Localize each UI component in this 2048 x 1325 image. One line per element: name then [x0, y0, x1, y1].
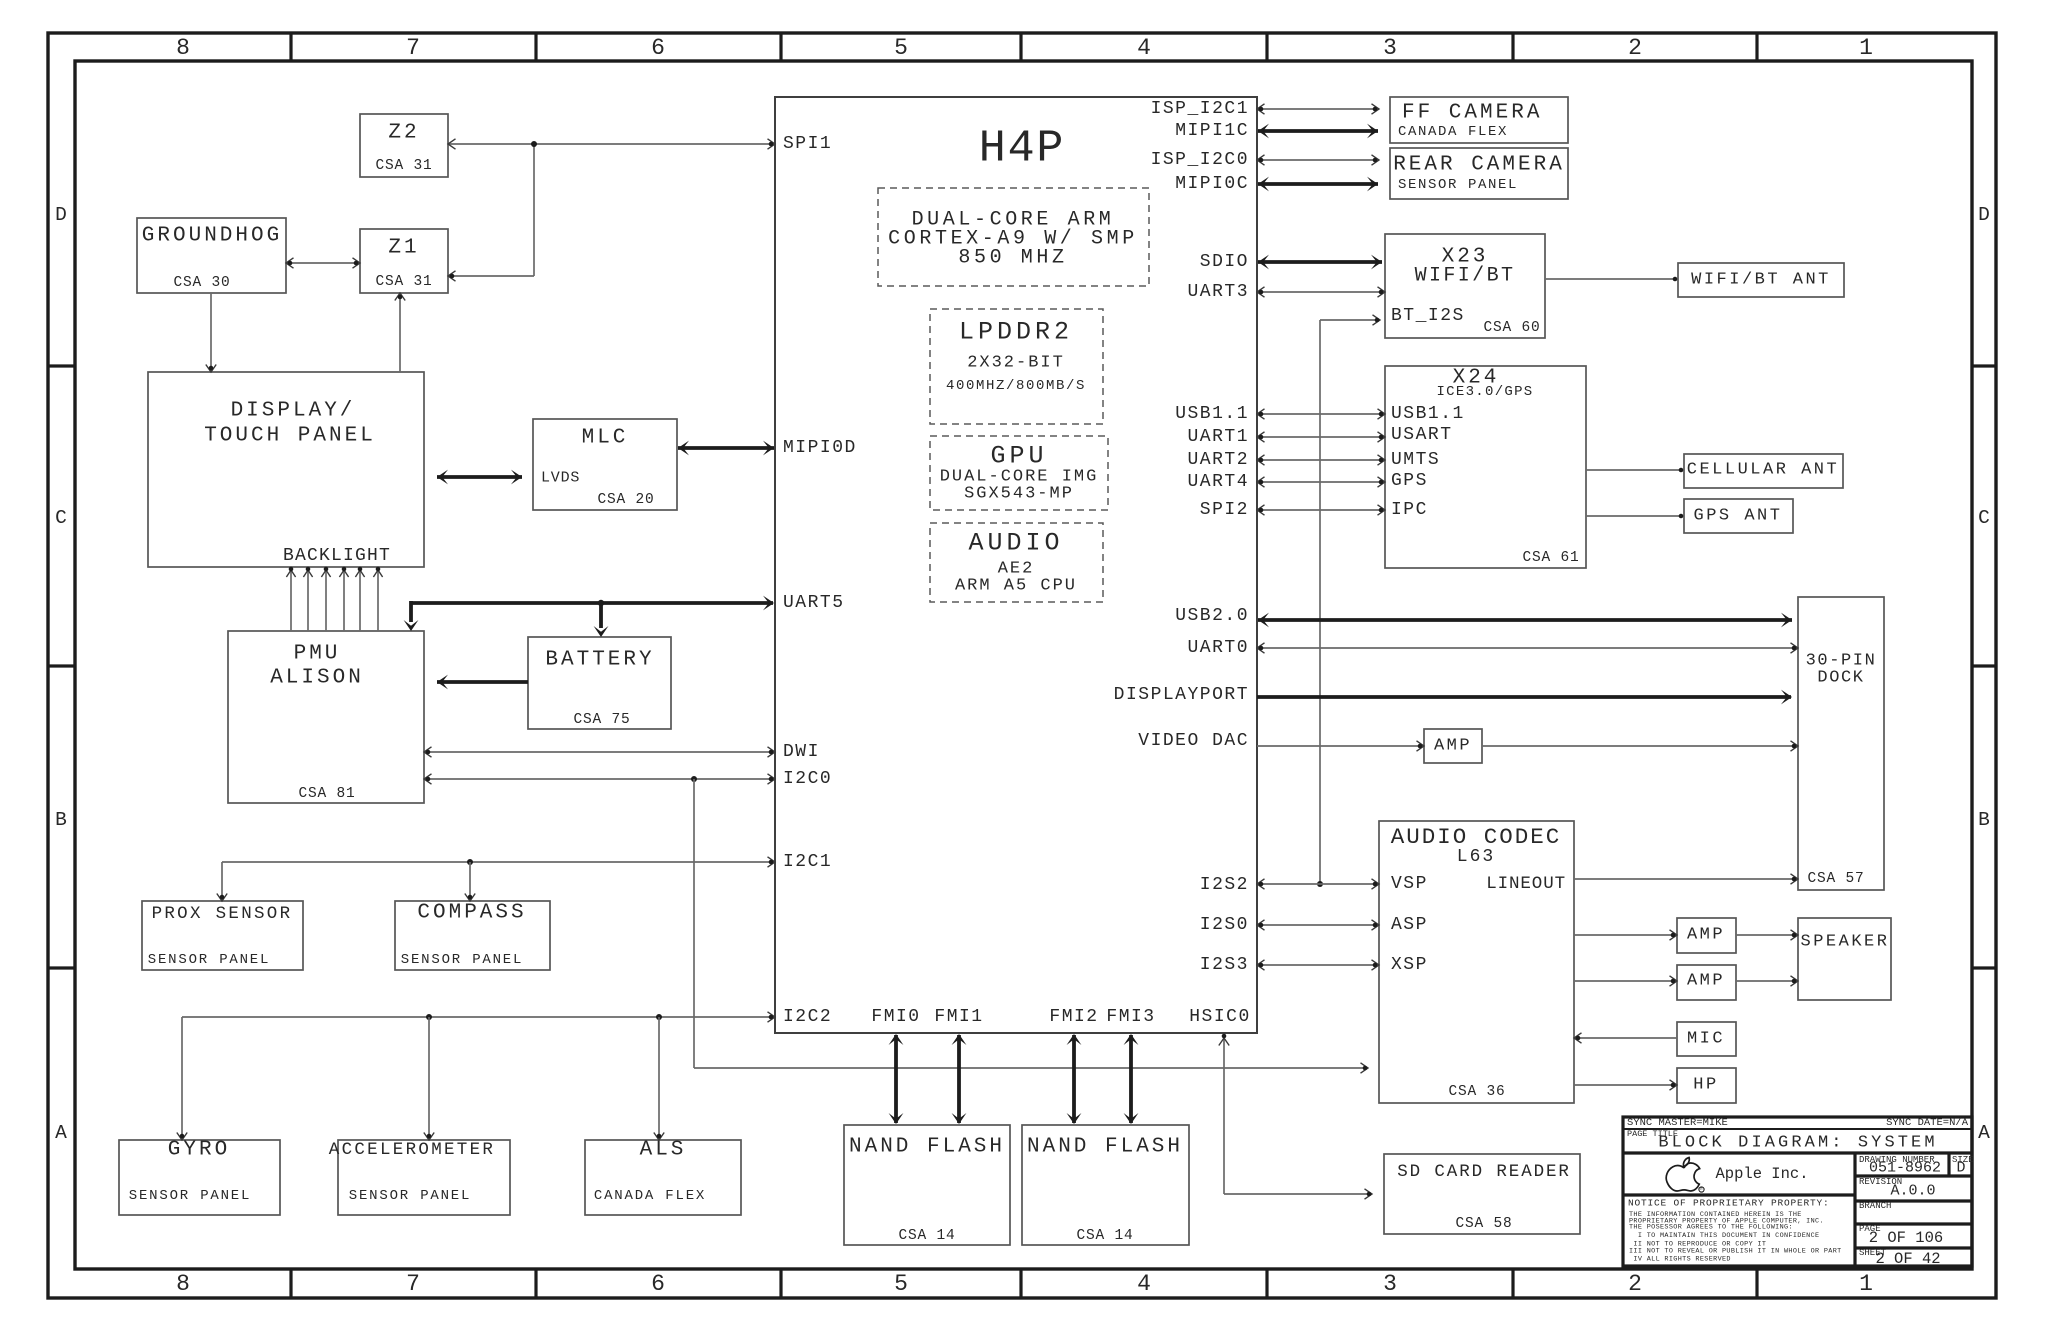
- svg-text:BACKLIGHT: BACKLIGHT: [283, 546, 391, 566]
- block X24 ICE3.0/GPS (CSA 61): [1385, 366, 1586, 568]
- title block proprietary notice: [1628, 1198, 1830, 1209]
- svg-text:Z1: Z1: [388, 237, 419, 260]
- H4P inner dashed block: GPU: [930, 436, 1108, 510]
- svg-text:GPS: GPS: [1391, 471, 1428, 491]
- block SPEAKER: [1798, 918, 1891, 1000]
- block ALS (CANADA FLEX): [585, 1139, 741, 1216]
- svg-text:CSA 36: CSA 36: [1448, 1084, 1505, 1100]
- title block frame: [1623, 1117, 1972, 1266]
- svg-text:UART0: UART0: [1187, 638, 1249, 658]
- svg-text:FMI1: FMI1: [934, 1007, 983, 1027]
- svg-text:PMU: PMU: [294, 643, 341, 666]
- svg-text:AMP: AMP: [1434, 737, 1472, 756]
- wire UART1 H4P to X24 USART: [1257, 432, 1385, 442]
- title block page title: [1627, 1129, 1938, 1153]
- svg-text:I2S0: I2S0: [1200, 915, 1249, 935]
- svg-text:8: 8: [176, 35, 190, 61]
- svg-text:ASP: ASP: [1391, 915, 1428, 935]
- svg-text:SENSOR PANEL: SENSOR PANEL: [1398, 177, 1518, 193]
- block MLC (LVDS, CSA 20): [533, 419, 677, 510]
- svg-text:CSA 20: CSA 20: [597, 492, 654, 508]
- title block sheet number: [1859, 1248, 1941, 1268]
- svg-text:LINEOUT: LINEOUT: [1486, 874, 1566, 894]
- svg-text:BATTERY: BATTERY: [545, 649, 654, 672]
- block Z1 (CSA 31): [360, 229, 448, 293]
- svg-text:SENSOR PANEL: SENSOR PANEL: [401, 952, 523, 968]
- column tick marks top/bottom: [291, 33, 1757, 1298]
- block GROUNDHOG (CSA 30): [137, 218, 286, 293]
- svg-text:GPU: GPU: [990, 442, 1047, 471]
- block AMP 1 (speaker amp): [1677, 918, 1736, 953]
- svg-text:ICE3.0/GPS: ICE3.0/GPS: [1436, 384, 1533, 400]
- wire codec to AMP 2: [1574, 976, 1677, 986]
- wire MLC to H4P MIPI0D (thick): [678, 441, 774, 456]
- svg-text:BT_I2S: BT_I2S: [1391, 306, 1465, 326]
- wire ISP_I2C0 H4P to REAR CAMERA: [1257, 155, 1379, 165]
- wire I2S2 H4P to codec VSP: [1257, 879, 1379, 889]
- svg-text:LPDDR2: LPDDR2: [959, 318, 1073, 347]
- wire BT_I2S net X23 to VSP line: [1317, 315, 1380, 887]
- block AMP 2 (speaker amp): [1677, 965, 1736, 1000]
- wire FMI0 H4P to NAND FLASH 1 (thick): [889, 1034, 904, 1124]
- svg-text:7: 7: [406, 1271, 420, 1297]
- block 30-PIN DOCK (CSA 57): [1798, 597, 1884, 890]
- wire USB2.0 H4P to 30-PIN DOCK (thick): [1258, 613, 1792, 628]
- svg-text:2X32-BIT: 2X32-BIT: [967, 354, 1065, 373]
- svg-text:CSA 30: CSA 30: [173, 275, 230, 291]
- svg-text:CANADA FLEX: CANADA FLEX: [1398, 124, 1508, 140]
- svg-text:BLOCK DIAGRAM: SYSTEM: BLOCK DIAGRAM: SYSTEM: [1658, 1134, 1937, 1153]
- block WIFI/BT ANT: [1678, 263, 1844, 297]
- svg-text:GPS ANT: GPS ANT: [1694, 507, 1783, 526]
- row tick marks left/right: [48, 366, 1996, 968]
- wire DWI PMU to H4P: [424, 747, 775, 757]
- svg-text:IV ALL RIGHTS RESERVED: IV ALL RIGHTS RESERVED: [1629, 1256, 1731, 1264]
- svg-text:CSA 14: CSA 14: [898, 1228, 955, 1244]
- svg-text:MIPI1C: MIPI1C: [1175, 121, 1249, 141]
- svg-text:CSA 61: CSA 61: [1522, 550, 1579, 566]
- svg-text:ARM A5 CPU: ARM A5 CPU: [955, 577, 1077, 596]
- svg-text:ISP_I2C0: ISP_I2C0: [1151, 150, 1249, 170]
- svg-text:CSA 31: CSA 31: [375, 158, 432, 174]
- svg-text:H4P: H4P: [979, 124, 1065, 175]
- svg-text:8: 8: [176, 1271, 190, 1297]
- svg-text:I2S2: I2S2: [1200, 875, 1249, 895]
- svg-text:AMP: AMP: [1687, 926, 1725, 945]
- block GYRO (SENSOR PANEL): [119, 1139, 280, 1216]
- svg-text:THE POSESSOR AGREES TO THE FOL: THE POSESSOR AGREES TO THE FOLLOWING:: [1629, 1224, 1793, 1232]
- wire GROUNDHOG down to DISPLAY: [206, 293, 216, 372]
- block PMU ALISON (CSA 81): [228, 631, 424, 803]
- wire X24 to CELLULAR ANT: [1586, 468, 1684, 473]
- wire HSIC0 net H4P to SD CARD READER: [1219, 1034, 1372, 1200]
- svg-text:DOCK: DOCK: [1817, 669, 1864, 688]
- svg-text:I2C2: I2C2: [783, 1007, 832, 1027]
- svg-text:7: 7: [406, 35, 420, 61]
- svg-text:2 OF 106: 2 OF 106: [1869, 1229, 1943, 1247]
- svg-text:D: D: [1956, 1160, 1965, 1177]
- svg-text:I2C1: I2C1: [783, 852, 832, 872]
- wire backlight arrows DISPLAY to PMU: [286, 567, 382, 631]
- svg-text:FMI0: FMI0: [871, 1007, 920, 1027]
- block FF CAMERA (CANADA FLEX): [1390, 97, 1568, 143]
- svg-text:Z2: Z2: [388, 122, 419, 145]
- svg-text:400MHZ/800MB/S: 400MHZ/800MB/S: [946, 378, 1086, 394]
- svg-text:UART2: UART2: [1187, 450, 1249, 470]
- wire UART0 H4P to 30-PIN DOCK: [1257, 643, 1798, 653]
- svg-text:2 OF 42: 2 OF 42: [1875, 1250, 1940, 1268]
- svg-text:3: 3: [1383, 35, 1397, 61]
- wire USB1.1 H4P to X24: [1257, 409, 1385, 419]
- svg-text:SPEAKER: SPEAKER: [1801, 933, 1890, 952]
- block AUDIO CODEC L63 (CSA 36): [1379, 821, 1574, 1103]
- wire LINEOUT codec to 30-PIN DOCK: [1574, 874, 1798, 884]
- svg-text:C: C: [55, 507, 67, 529]
- row labels right: [1978, 204, 1990, 1144]
- wire UART2 H4P to X24 UMTS: [1257, 455, 1385, 465]
- svg-text:SPI1: SPI1: [783, 134, 832, 154]
- svg-text:A.0.0: A.0.0: [1890, 1183, 1935, 1200]
- block X23 WIFI/BT (CSA 60): [1385, 234, 1545, 338]
- svg-text:SYNC DATE=N/A: SYNC DATE=N/A: [1886, 1117, 1969, 1129]
- svg-text:I2S3: I2S3: [1200, 955, 1249, 975]
- svg-text:NOTICE OF PROPRIETARY PROPERTY: NOTICE OF PROPRIETARY PROPERTY:: [1628, 1198, 1830, 1209]
- svg-text:DWI: DWI: [783, 742, 820, 762]
- svg-text:1: 1: [1859, 1271, 1873, 1297]
- svg-text:6: 6: [651, 1271, 665, 1297]
- block COMPASS (SENSOR PANEL): [395, 901, 550, 970]
- svg-text:ALS: ALS: [640, 1139, 687, 1162]
- wire I2C1 net H4P to PROX SENSOR and COMPASS: [217, 857, 775, 901]
- svg-text:GROUNDHOG: GROUNDHOG: [142, 225, 282, 248]
- wire FMI1 H4P to NAND FLASH 1 (thick): [952, 1034, 967, 1124]
- wire codec to AMP 1: [1574, 930, 1677, 940]
- svg-text:DISPLAYPORT: DISPLAYPORT: [1114, 685, 1249, 705]
- svg-text:SENSOR PANEL: SENSOR PANEL: [349, 1188, 471, 1204]
- title block sync row: [1627, 1117, 1969, 1129]
- block PROX SENSOR (SENSOR PANEL): [142, 901, 303, 970]
- svg-text:D: D: [55, 204, 67, 226]
- svg-text:SENSOR PANEL: SENSOR PANEL: [129, 1188, 251, 1204]
- wire FMI3 H4P to NAND FLASH 2 (thick): [1124, 1034, 1139, 1124]
- H4P inner dashed block: DUAL-CORE ARM CPU: [878, 188, 1149, 286]
- svg-text:5: 5: [894, 35, 908, 61]
- svg-text:SYNC MASTER=MIKE: SYNC MASTER=MIKE: [1627, 1117, 1728, 1129]
- svg-text:MLC: MLC: [582, 427, 629, 450]
- wire codec to HP: [1574, 1080, 1677, 1090]
- block ACCELEROMETER (SENSOR PANEL): [329, 1140, 510, 1215]
- svg-text:UART1: UART1: [1187, 427, 1249, 447]
- wire UART4 H4P to X24 GPS: [1257, 477, 1385, 487]
- Apple Inc. logo and name: [1666, 1158, 1808, 1193]
- svg-text:CSA 14: CSA 14: [1076, 1228, 1133, 1244]
- svg-text:XSP: XSP: [1391, 955, 1428, 975]
- H4P inner dashed block: AUDIO engine: [930, 523, 1103, 602]
- svg-text:SPI2: SPI2: [1200, 500, 1249, 520]
- svg-text:MIPI0D: MIPI0D: [783, 438, 857, 458]
- wire VIDEO DAC H4P to AMP: [1257, 741, 1424, 751]
- svg-text:A: A: [55, 1122, 67, 1144]
- svg-text:B: B: [1978, 809, 1990, 831]
- block NAND FLASH 1 (CSA 14): [844, 1125, 1010, 1245]
- block SD CARD READER (CSA 58): [1384, 1154, 1580, 1234]
- wire MIPI0C H4P to REAR CAMERA (thick): [1258, 177, 1378, 192]
- svg-text:850 MHZ: 850 MHZ: [958, 247, 1067, 270]
- wire FMI2 H4P to NAND FLASH 2 (thick): [1067, 1034, 1082, 1124]
- svg-text:CSA 60: CSA 60: [1483, 320, 1540, 336]
- svg-text:051-8962: 051-8962: [1869, 1160, 1941, 1177]
- svg-text:AMP: AMP: [1687, 972, 1725, 991]
- block NAND FLASH 2 (CSA 14): [1022, 1125, 1189, 1245]
- svg-text:SGX543-MP: SGX543-MP: [964, 485, 1074, 504]
- svg-text:REAR CAMERA: REAR CAMERA: [1393, 154, 1565, 177]
- svg-text:FMI2: FMI2: [1049, 1007, 1098, 1027]
- svg-text:IPC: IPC: [1391, 500, 1428, 520]
- svg-text:5: 5: [894, 1271, 908, 1297]
- svg-text:DISPLAY/: DISPLAY/: [231, 400, 356, 423]
- column labels top: [176, 35, 1873, 61]
- svg-text:MIC: MIC: [1687, 1030, 1725, 1049]
- svg-text:ACCELEROMETER: ACCELEROMETER: [329, 1140, 495, 1160]
- wire DISPLAY up to Z1: [395, 293, 405, 372]
- svg-text:B: B: [55, 809, 67, 831]
- column labels bottom: [176, 1271, 1873, 1297]
- title block revision: [1859, 1177, 1936, 1200]
- svg-text:USB1.1: USB1.1: [1175, 404, 1249, 424]
- title block branch: [1859, 1201, 1891, 1211]
- svg-text:6: 6: [651, 35, 665, 61]
- svg-text:GYRO: GYRO: [168, 1139, 230, 1162]
- svg-text:CSA 57: CSA 57: [1807, 871, 1864, 887]
- H4P right pin labels: [1114, 99, 1249, 975]
- H4P left pin labels: [783, 134, 857, 1027]
- svg-text:1: 1: [1859, 35, 1873, 61]
- svg-text:C: C: [1978, 507, 1990, 529]
- svg-text:TOUCH PANEL: TOUCH PANEL: [204, 425, 376, 448]
- svg-text:UART3: UART3: [1187, 282, 1249, 302]
- wire GROUNDHOG to Z1: [286, 258, 360, 268]
- wire AMP 2 to SPEAKER: [1736, 976, 1798, 986]
- svg-text:I TO MAINTAIN THIS DOCUMENT IN: I TO MAINTAIN THIS DOCUMENT IN CONFIDENC…: [1629, 1232, 1819, 1240]
- svg-text:A: A: [1978, 1122, 1990, 1144]
- svg-text:WIFI/BT: WIFI/BT: [1415, 265, 1516, 288]
- wire MIC to codec: [1574, 1033, 1677, 1043]
- svg-text:SDIO: SDIO: [1200, 252, 1249, 272]
- svg-text:USB1.1: USB1.1: [1391, 404, 1465, 424]
- wire SDIO H4P to X23 (thick): [1258, 255, 1382, 270]
- svg-text:D: D: [1978, 204, 1990, 226]
- svg-text:III NOT TO REVEAL OR PUBLISH I: III NOT TO REVEAL OR PUBLISH IT IN WHOLE…: [1629, 1248, 1842, 1256]
- wire DISPLAYPORT H4P to 30-PIN DOCK (thick): [1257, 690, 1792, 705]
- svg-text:AUDIO: AUDIO: [968, 529, 1063, 558]
- svg-text:FMI3: FMI3: [1106, 1007, 1155, 1027]
- svg-text:FF CAMERA: FF CAMERA: [1402, 102, 1542, 125]
- svg-text:VSP: VSP: [1391, 874, 1428, 894]
- svg-text:SENSOR PANEL: SENSOR PANEL: [148, 952, 270, 968]
- svg-text:USB2.0: USB2.0: [1175, 606, 1249, 626]
- wire MIPI1C H4P to FF CAMERA (thick): [1258, 124, 1378, 139]
- svg-text:UMTS: UMTS: [1391, 450, 1440, 470]
- svg-text:CANADA FLEX: CANADA FLEX: [594, 1188, 706, 1204]
- block HP: [1677, 1068, 1736, 1103]
- svg-text:L63: L63: [1457, 847, 1495, 867]
- svg-text:ISP_I2C1: ISP_I2C1: [1151, 99, 1249, 119]
- svg-text:WIFI/BT ANT: WIFI/BT ANT: [1691, 271, 1831, 290]
- wire I2C2 net H4P to GYRO/ACCELEROMETER/ALS: [177, 1012, 775, 1140]
- wire SPI2 H4P to X24 IPC: [1257, 505, 1385, 515]
- wire ISP_I2C1 H4P to FF CAMERA: [1257, 104, 1379, 114]
- svg-text:PROX SENSOR: PROX SENSOR: [152, 904, 293, 924]
- svg-text:CSA 75: CSA 75: [573, 712, 630, 728]
- svg-text:USART: USART: [1391, 425, 1453, 445]
- svg-text:UART4: UART4: [1187, 472, 1249, 492]
- block DISPLAY / TOUCH PANEL: [148, 372, 424, 567]
- svg-text:I2C0: I2C0: [783, 769, 832, 789]
- svg-text:ALISON: ALISON: [270, 667, 364, 690]
- svg-text:NAND FLASH: NAND FLASH: [1027, 1136, 1183, 1159]
- svg-text:4: 4: [1137, 1271, 1151, 1297]
- svg-text:CSA 81: CSA 81: [298, 786, 355, 802]
- block CELLULAR ANT: [1684, 454, 1843, 488]
- block BATTERY (CSA 75): [528, 637, 671, 729]
- svg-text:3: 3: [1383, 1271, 1397, 1297]
- wire BATTERY to PMU (thick): [437, 675, 528, 690]
- svg-text:4: 4: [1137, 35, 1151, 61]
- H4P inner dashed block: LPDDR2 memory: [930, 309, 1103, 424]
- svg-text:NAND FLASH: NAND FLASH: [849, 1136, 1005, 1159]
- svg-text:VIDEO DAC: VIDEO DAC: [1138, 731, 1249, 751]
- wire AMP to 30-PIN DOCK: [1482, 741, 1798, 751]
- svg-text:HP: HP: [1693, 1076, 1718, 1095]
- title block size: [1952, 1155, 1974, 1177]
- svg-text:UART5: UART5: [783, 593, 845, 613]
- wire I2S0 H4P to codec ASP: [1257, 920, 1379, 930]
- wire AMP 1 to SPEAKER: [1736, 930, 1798, 940]
- block MIC: [1677, 1022, 1736, 1056]
- svg-text:MIPI0C: MIPI0C: [1175, 174, 1249, 194]
- SoC block H4P: [775, 97, 1257, 1033]
- block GPS ANT: [1684, 499, 1793, 533]
- title block drawing number: [1859, 1155, 1941, 1177]
- wire X24 to GPS ANT: [1586, 514, 1684, 519]
- wire X23 to WIFI/BT ANT: [1545, 277, 1678, 282]
- svg-text:COMPASS: COMPASS: [417, 902, 526, 925]
- wire UART5 thick net H4P to PMU and BATTERY: [404, 596, 774, 637]
- H4P bottom pin labels: [871, 1007, 1250, 1027]
- block Z2 (CSA 31): [360, 114, 448, 177]
- wire SPI1 net H4P to Z2/Z1: [448, 139, 775, 281]
- title block page number: [1859, 1224, 1943, 1247]
- svg-text:CSA 31: CSA 31: [375, 274, 432, 290]
- wire UART3 H4P to X23: [1257, 287, 1385, 297]
- row labels left: [55, 204, 67, 1144]
- wire DISPLAY to MLC (thick): [437, 470, 522, 485]
- wire I2S3 H4P to codec XSP: [1257, 960, 1379, 970]
- svg-text:SD CARD READER: SD CARD READER: [1397, 1162, 1571, 1182]
- svg-text:2: 2: [1628, 35, 1642, 61]
- svg-text:BRANCH: BRANCH: [1859, 1201, 1891, 1211]
- svg-text:LVDS: LVDS: [541, 470, 580, 487]
- svg-text:HSIC0: HSIC0: [1189, 1007, 1251, 1027]
- svg-text:Apple Inc.: Apple Inc.: [1715, 1165, 1808, 1183]
- svg-text:CSA 58: CSA 58: [1455, 1216, 1512, 1232]
- block AMP (video dac amp): [1424, 729, 1482, 763]
- block REAR CAMERA (SENSOR PANEL): [1390, 148, 1568, 199]
- svg-text:2: 2: [1628, 1271, 1642, 1297]
- svg-text:CELLULAR ANT: CELLULAR ANT: [1687, 461, 1839, 480]
- wire I2C0 net PMU to H4P and audio codec: [424, 774, 1368, 1073]
